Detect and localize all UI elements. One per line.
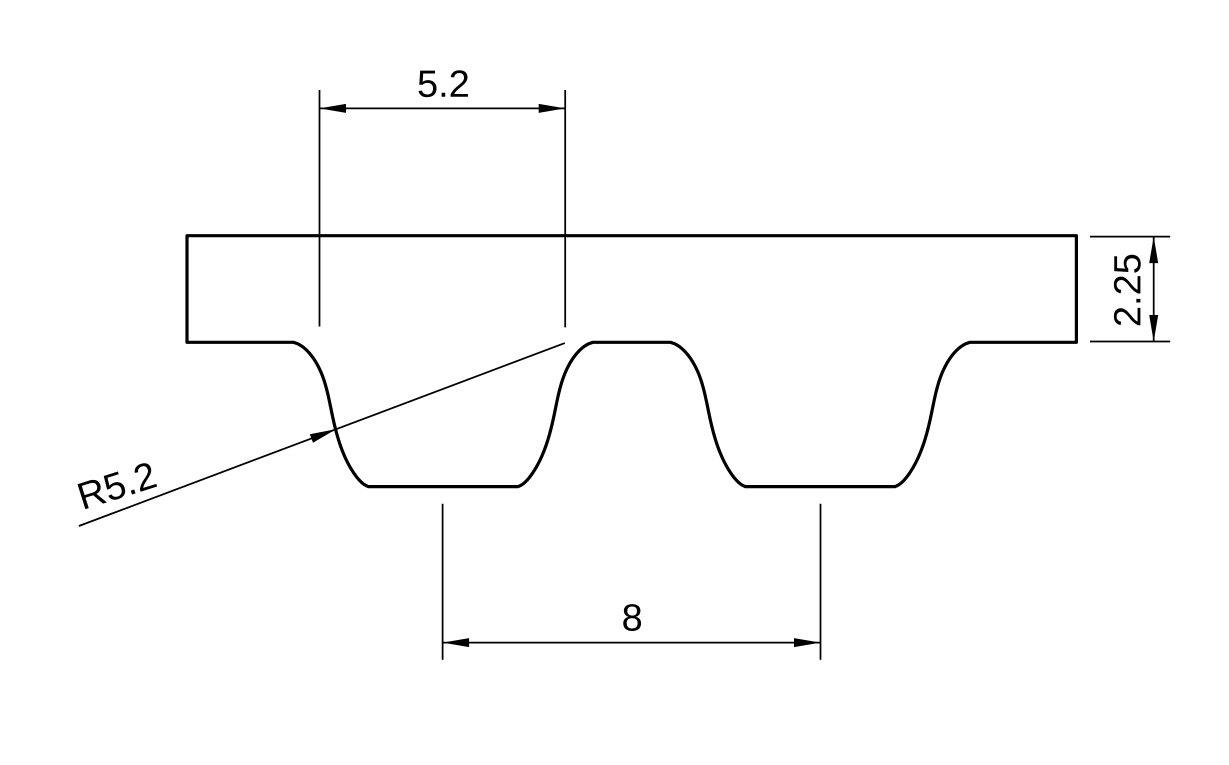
dimension 2.25: top extension line xyxy=(1090,236,1170,238)
dimension 8: left extension line xyxy=(442,504,444,660)
dimension 8: value text "8" xyxy=(623,604,641,631)
dimension 2.25: bottom extension line xyxy=(1090,341,1170,343)
dimension 5.2: left extension line xyxy=(319,90,321,327)
radius R5.2: leader line xyxy=(79,343,565,526)
dimension 2.25: dimension line xyxy=(1153,237,1155,342)
dimension 5.2: right arrowhead xyxy=(539,104,566,113)
belt tooth profile outline xyxy=(187,236,1076,487)
dimension 5.2: right extension line xyxy=(564,90,566,327)
dimension 5.2: value text "5.2" xyxy=(419,70,468,97)
dimension 5.2: dimension line xyxy=(320,107,566,109)
dimension 5.2: left arrowhead xyxy=(320,104,347,113)
dimension 2.25: value text "2.25" (rotated) xyxy=(1114,255,1141,325)
radius R5.2: value text "R5.2" (rotated) xyxy=(77,461,157,509)
dimension 2.25: bottom arrowhead xyxy=(1149,315,1158,342)
dimension 2.25: top arrowhead xyxy=(1149,237,1158,264)
dimension 8: right extension line xyxy=(820,504,822,660)
dimension 8: left arrowhead xyxy=(443,638,470,647)
dimension 8: dimension line xyxy=(443,642,821,644)
radius R5.2: leader arrowhead xyxy=(310,429,336,443)
dimension 8: right arrowhead xyxy=(794,638,821,647)
